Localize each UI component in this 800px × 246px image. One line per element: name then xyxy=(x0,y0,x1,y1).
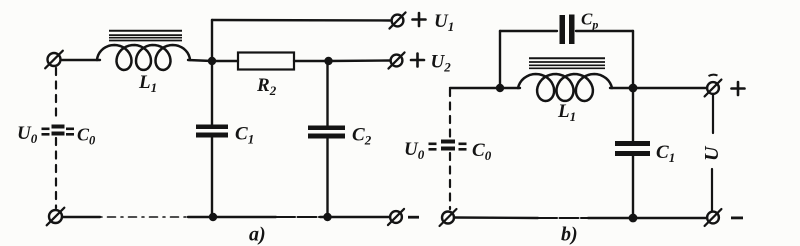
svg-text:C0: C0 xyxy=(77,125,96,148)
wire C2 to bottom rail xyxy=(326,138,328,217)
capacitor C2 xyxy=(308,126,345,139)
svg-text:a): a) xyxy=(249,224,266,246)
junction J1 xyxy=(208,57,216,65)
wire coil to J4 (b) xyxy=(610,87,631,89)
wire dashed C0 down to bottom-left terminal (a) xyxy=(55,138,57,208)
wire Cp down to node J4 xyxy=(632,31,634,88)
wire C1 to bottom rail xyxy=(211,137,213,217)
svg-text:U0: U0 xyxy=(404,139,425,162)
capacitor C1 (a) xyxy=(196,125,228,138)
wire J2 to +U2 terminal xyxy=(329,59,391,62)
label minus (a) xyxy=(408,216,419,219)
svg-text:Cp: Cp xyxy=(581,10,598,32)
terminal input top-left (a) xyxy=(45,51,63,69)
svg-text:L1: L1 xyxy=(138,72,157,95)
wire top rail to +U1 terminal xyxy=(212,19,390,22)
output voltage lead upper (b) xyxy=(712,95,714,133)
svg-text:U: U xyxy=(701,145,723,161)
svg-text:L1: L1 xyxy=(557,101,576,124)
junction C1-rail xyxy=(209,213,217,221)
wire J3 up to Cp branch xyxy=(499,31,501,88)
junction J3 (b) xyxy=(496,84,504,92)
junction J2 xyxy=(324,57,332,65)
bottom rail (a) faint segment xyxy=(276,216,320,218)
capacitor Cp xyxy=(560,15,575,45)
terminal bottom-left (a) xyxy=(47,208,65,226)
bottom rail (b) faint segment xyxy=(538,217,588,219)
wire R2 to J2 xyxy=(294,60,329,62)
resistor R2 box xyxy=(238,53,294,70)
breve mark above + terminal xyxy=(709,75,718,76)
capacitor C0 (b) xyxy=(441,140,455,151)
bottom rail (b) segment 1 xyxy=(454,216,538,219)
wire J4 down to C1 (b) xyxy=(632,88,634,142)
inductor L1 (a) core lines xyxy=(109,31,182,41)
bottom rail (a) segment 1 xyxy=(62,216,100,218)
dash mark right of C0 (b) xyxy=(459,143,467,151)
wire J4 to + terminal (b) xyxy=(633,87,706,89)
svg-text:R2: R2 xyxy=(256,75,277,98)
wire dashed top of C0 (b) xyxy=(449,89,451,137)
svg-text:b): b) xyxy=(561,224,578,246)
terminal +U2 xyxy=(388,52,404,68)
terminal +U1 xyxy=(389,12,405,28)
dash mark right of C0 (a) xyxy=(66,128,74,136)
bottom rail (a) segment 2 with junctions xyxy=(188,216,276,218)
wire C1 (b) to bottom rail xyxy=(632,156,634,218)
terminal minus output (b) xyxy=(705,209,722,226)
dash mark left of C0 (b) xyxy=(429,143,437,151)
bottom rail (b) segment 2 xyxy=(588,217,707,219)
wire input to L1 xyxy=(62,59,100,61)
svg-text:C1: C1 xyxy=(235,124,254,147)
svg-text:C0: C0 xyxy=(472,140,492,163)
svg-text:C1: C1 xyxy=(656,142,675,165)
wire Cp left horizontal xyxy=(500,30,557,32)
terminal bottom-left (b) xyxy=(440,209,457,226)
wire J1 to R2 xyxy=(212,60,238,62)
wire dashed from input terminal down to C0 (a) xyxy=(55,68,57,122)
label + (U2) xyxy=(411,54,424,67)
wire Cp right horizontal xyxy=(576,30,633,32)
inductor L1 (b) core lines xyxy=(529,58,605,68)
wire L1 to node J1 xyxy=(188,60,212,61)
wire J2 down to C2 xyxy=(326,61,328,126)
wire vertical J1 up to top rail xyxy=(211,20,213,61)
capacitor C0 (a) xyxy=(52,125,65,136)
bottom rail (a) segment 3 xyxy=(320,216,389,218)
wire dashed C0 (b) down to terminal xyxy=(449,153,451,209)
junction C1-rail (b) xyxy=(629,214,638,223)
label minus output (b) xyxy=(731,217,743,220)
label + (U1) xyxy=(413,13,426,26)
svg-text:U1: U1 xyxy=(434,11,454,34)
inductor L1 (a) coil xyxy=(97,45,190,70)
wire J3 to coil (b) xyxy=(502,87,520,89)
capacitor C1 (b) xyxy=(615,141,650,156)
svg-text:U0: U0 xyxy=(17,123,38,146)
svg-text:U2: U2 xyxy=(431,52,452,75)
output voltage lead lower (b) xyxy=(711,169,713,211)
label + output (b) xyxy=(732,82,745,95)
junction C2-rail xyxy=(323,213,331,221)
terminal + output (b) xyxy=(705,80,722,97)
terminal bottom-right (a) xyxy=(388,209,404,225)
dash mark left of C0 (a) xyxy=(42,128,50,136)
wire corner to node J3 (b) xyxy=(450,87,500,89)
inductor L1 (b) coil xyxy=(518,74,612,101)
bottom rail (a) faded dash-dot segment xyxy=(100,216,188,218)
junction J4 (b) xyxy=(629,84,638,93)
wire J1 down to C1 xyxy=(211,61,213,125)
svg-text:C2: C2 xyxy=(352,125,372,148)
